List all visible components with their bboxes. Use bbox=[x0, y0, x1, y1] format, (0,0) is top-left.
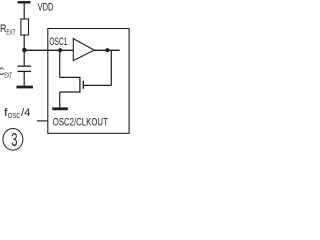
svg-text:VDD: VDD bbox=[38, 1, 54, 13]
wire OSC1 node down to drain bbox=[59, 50, 61, 77]
svg-text:3: 3 bbox=[11, 130, 17, 150]
ground external bbox=[17, 86, 34, 89]
node B junction dot bbox=[105, 48, 109, 52]
VDD power symbol bbox=[18, 2, 31, 19]
svg-text:OSC1: OSC1 bbox=[49, 36, 67, 48]
op-amp U1 inverter bbox=[73, 39, 94, 61]
node OSC1 junction dot bbox=[58, 48, 62, 52]
chip box bbox=[48, 29, 129, 134]
resistor R1 REXT bbox=[21, 19, 29, 35]
node A junction dot bbox=[22, 48, 27, 53]
wire capacitor to ground bbox=[23, 71, 25, 85]
svg-text:OSC2/CLKOUT: OSC2/CLKOUT bbox=[53, 116, 108, 128]
wire node A to OSC1 input bbox=[24, 49, 73, 51]
transistor Q1 channel bar bbox=[79, 77, 81, 93]
svg-text:EXT: EXT bbox=[4, 71, 12, 80]
wire inverter output bbox=[94, 49, 120, 51]
label fOSC/4 bbox=[4, 107, 30, 120]
svg-text:EXT: EXT bbox=[6, 28, 15, 37]
transistor Q1 gate bar bbox=[82, 81, 84, 89]
wire feedback to gate bbox=[83, 84, 111, 86]
wire resistor to node A bbox=[23, 35, 25, 50]
note circle 3 bbox=[3, 129, 23, 151]
svg-text:/4: /4 bbox=[21, 107, 30, 119]
ground internal bbox=[52, 107, 68, 110]
wire fOSC/4 lead to OSC2 pin bbox=[37, 120, 48, 122]
wire node A down to capacitor bbox=[23, 50, 25, 65]
capacitor C1 CEXT bbox=[18, 66, 32, 71]
wire feedback down bbox=[110, 50, 112, 85]
svg-text:OSC: OSC bbox=[8, 111, 21, 120]
wire drain arm bbox=[60, 76, 80, 78]
wire source arm bbox=[60, 91, 80, 93]
wire source down to ground bbox=[59, 92, 61, 108]
